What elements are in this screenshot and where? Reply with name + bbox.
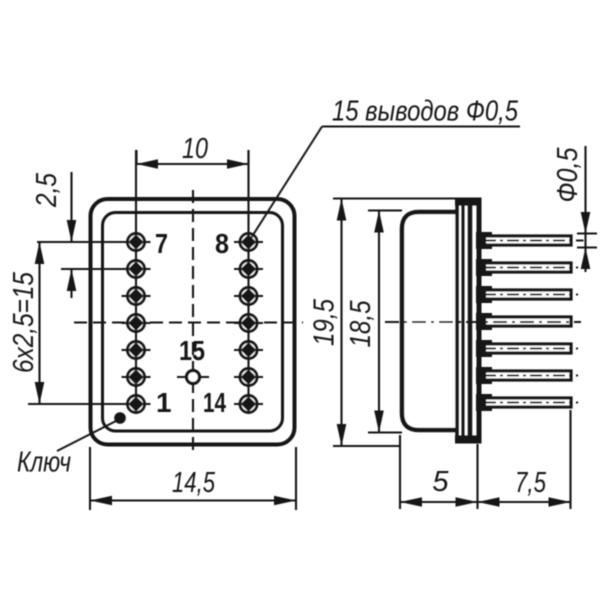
dimension 2,5 (31, 172, 76, 298)
dimension 18,5 (345, 211, 402, 433)
left pin column line (135, 150, 137, 412)
pin 15 (177, 371, 209, 384)
row 2 extension line (61, 268, 151, 270)
pin row6 right (234, 369, 263, 386)
pin row5 right (234, 342, 263, 359)
label Kluch (17, 447, 71, 479)
svg-text:15 выводов Ф0,5: 15 выводов Ф0,5 (332, 96, 519, 128)
pin 14 (234, 396, 263, 413)
svg-text:5: 5 (432, 466, 449, 498)
lead 5 (484, 344, 578, 353)
svg-text:2,5: 2,5 (31, 172, 63, 208)
pin row3 left (122, 288, 151, 305)
pin row6 left (122, 369, 151, 386)
pin row4 left (122, 315, 151, 332)
svg-text:Ключ: Ключ (17, 447, 71, 479)
label 15 vyvodov F0,5 (332, 96, 519, 128)
horizontal centerline of top view (74, 321, 303, 323)
can body (side view) (402, 212, 457, 430)
pin 1 (122, 396, 151, 413)
svg-text:7,5: 7,5 (515, 467, 547, 499)
leader 15 vyvodov (249, 127, 521, 243)
key dot (114, 412, 126, 424)
lead 6 (484, 371, 578, 380)
lead 4 (485, 317, 572, 326)
dimension F0,5 (552, 146, 597, 272)
package outline inner (top view) (103, 213, 283, 432)
label pin 14 (203, 387, 226, 418)
row 7 extension line (28, 403, 151, 405)
svg-text:18,5: 18,5 (345, 300, 377, 348)
dimension 10 (137, 133, 249, 169)
row 1 extension line (37, 241, 151, 243)
pin 8 (234, 234, 263, 251)
pin row5 left (122, 342, 151, 359)
svg-text:19,5: 19,5 (309, 298, 341, 346)
pin ticks rows 3-6 left column (122, 296, 151, 377)
base plate (455, 198, 482, 444)
svg-text:10: 10 (182, 133, 208, 165)
svg-text:7: 7 (155, 228, 168, 259)
lead 3 (484, 290, 578, 299)
dimension 6x2,5=15 (8, 242, 44, 404)
lead 1 (484, 236, 584, 245)
svg-text:Ф0,5: Ф0,5 (552, 147, 584, 203)
pin 7 (122, 234, 151, 251)
svg-text:1: 1 (156, 387, 172, 418)
package outline outer (top view) (91, 199, 295, 445)
lead 2 (484, 263, 578, 272)
label pin 15 (179, 335, 205, 366)
svg-text:8: 8 (215, 228, 229, 259)
right pin column line (247, 150, 249, 412)
label pin 1 (156, 387, 172, 418)
pin row3 right (234, 288, 263, 305)
dimension 19,5 (309, 199, 458, 447)
svg-text:14: 14 (203, 387, 226, 418)
key leader line (57, 421, 116, 451)
dimension 7,5 (478, 410, 571, 509)
side view centerline (385, 321, 581, 323)
lead base blocks (476, 232, 492, 411)
pin row4 right (234, 315, 263, 332)
dimension 5 (400, 435, 478, 509)
svg-text:15: 15 (179, 335, 205, 366)
pin row2 right (234, 261, 263, 278)
svg-text:6x2,5=15: 6x2,5=15 (8, 271, 40, 373)
pin row2 left (122, 261, 151, 278)
vertical centerline of top view (192, 190, 194, 452)
dimension 14,5 (90, 447, 296, 510)
label pin 7 (155, 228, 168, 259)
lead 7 (484, 398, 578, 407)
svg-text:14,5: 14,5 (172, 467, 216, 499)
label pin 8 (215, 228, 229, 259)
